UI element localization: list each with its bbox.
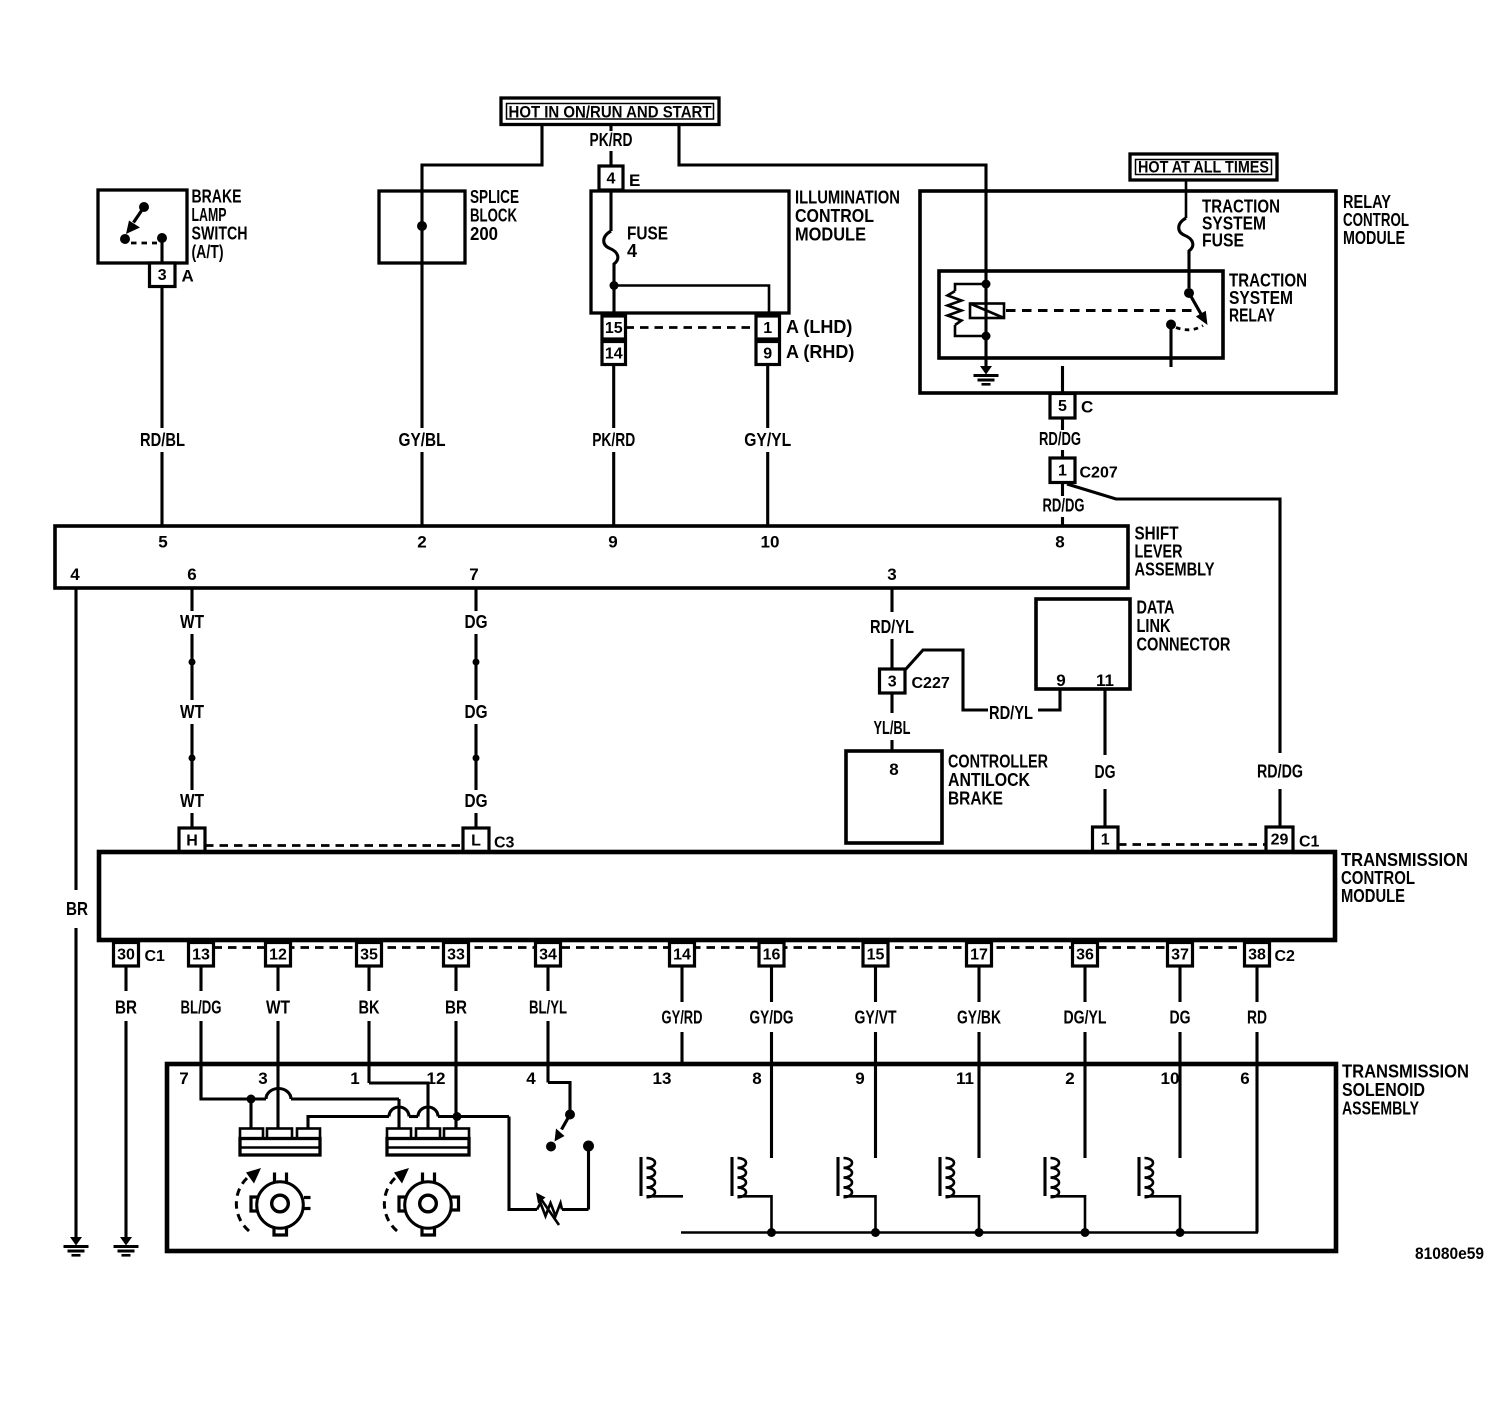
svg-text:RD/DG: RD/DG <box>1043 496 1085 516</box>
relay coil (spring) <box>955 284 986 291</box>
svg-text:34: 34 <box>539 947 557 964</box>
wire BR from TCM pin 30 to ground <box>124 966 127 991</box>
wire YL/BL from C227 <box>890 693 893 713</box>
brake lamp switch lower contact <box>120 234 130 244</box>
svg-text:ASSEMBLY: ASSEMBLY <box>1342 1099 1419 1119</box>
TCM pin 14 connector <box>670 943 695 967</box>
svg-text:TRANSMISSION: TRANSMISSION <box>1342 1062 1469 1082</box>
wire: HOT feed to splice block 200 <box>422 124 542 192</box>
dashed connector strip C1/C2 <box>214 946 1245 949</box>
svg-text:3: 3 <box>158 267 167 284</box>
wire from pin 4 to fuse 4 <box>609 190 612 231</box>
svg-text:(A/T): (A/T) <box>192 242 224 262</box>
TCM pin 12 connector <box>266 943 291 967</box>
svg-text:16: 16 <box>763 947 781 964</box>
wire BK from TCM pin 35 <box>367 966 370 991</box>
svg-text:4: 4 <box>70 565 80 584</box>
svg-text:1: 1 <box>1101 832 1110 849</box>
wire from HOT AT ALL TIMES to traction system fuse <box>1185 180 1188 218</box>
wire GY/RD from TCM pin 14 <box>680 966 683 1002</box>
controller antilock brake box <box>846 751 942 843</box>
svg-text:BL/DG: BL/DG <box>181 998 222 1018</box>
rail junction (pin 8 coil) <box>767 1228 776 1237</box>
thermistor arrow <box>541 1199 559 1225</box>
wire RD/DG branch from C207 to TCM pin 29 <box>1067 484 1280 753</box>
svg-text:15: 15 <box>867 947 885 964</box>
pin 14 connector <box>602 342 626 365</box>
svg-text:C1: C1 <box>1299 834 1320 851</box>
shift solenoid coil (pin 9) <box>836 1157 839 1196</box>
brake lamp switch travel (dashed) <box>131 242 157 245</box>
svg-text:GY/YL: GY/YL <box>744 430 791 450</box>
wire DG/YL from TCM pin 36 <box>1083 966 1086 1002</box>
svg-text:WT: WT <box>266 998 290 1018</box>
wire GY/VT from TCM pin 15 <box>874 966 877 1002</box>
inline connector C227 pin 3 <box>880 669 906 693</box>
wire PK/RD from HOT box <box>609 125 612 132</box>
wire WT from TCM pin 12 <box>276 966 279 991</box>
wire PK/RD from pin 14 <box>612 365 615 429</box>
svg-text:WT: WT <box>180 702 204 722</box>
svg-text:ASSEMBLY: ASSEMBLY <box>1135 560 1215 580</box>
traction system fuse <box>1179 218 1193 254</box>
TCM pin 33 connector <box>444 943 469 967</box>
wire DG from shift pin 7 <box>474 588 477 611</box>
wire DG from TCM pin 37 <box>1178 966 1181 1002</box>
pin 1 connector A (LHD) <box>756 316 780 339</box>
svg-text:C1: C1 <box>145 948 166 965</box>
TCM pin 38 connector <box>1245 943 1270 967</box>
svg-text:C: C <box>1081 398 1093 417</box>
temperature switch arm with arrow <box>562 1115 571 1130</box>
svg-text:DG: DG <box>465 612 488 632</box>
svg-text:HOT IN ON/RUN AND START: HOT IN ON/RUN AND START <box>509 103 713 122</box>
svg-text:LAMP: LAMP <box>192 205 227 225</box>
svg-text:7: 7 <box>469 565 478 584</box>
relay coil branch node <box>982 280 991 289</box>
svg-text:8: 8 <box>889 760 898 779</box>
wire: fuse output to pin 15 <box>612 286 615 317</box>
wire BR from shift pin 4 to ground <box>74 588 77 890</box>
shift solenoid coil (pin 10) <box>1137 1157 1140 1196</box>
relay switch travel (dotted arc) <box>1176 326 1203 330</box>
svg-text:38: 38 <box>1248 947 1266 964</box>
svg-text:9: 9 <box>1056 671 1065 690</box>
power feed box HOT IN ON/RUN AND START <box>501 98 719 125</box>
splice on WT wire <box>189 659 196 666</box>
svg-text:29: 29 <box>1271 832 1289 849</box>
speed sensor 2 (toothed wheel) <box>405 1182 452 1229</box>
svg-text:ILLUMINATION: ILLUMINATION <box>795 188 900 208</box>
TCM pin 37 connector <box>1168 943 1193 967</box>
wire RD/YL branch from C227 to data link connector pin 9 <box>905 650 988 710</box>
svg-text:GY/BL: GY/BL <box>399 430 446 450</box>
ground (TCM pin 30 BR) <box>120 1237 132 1246</box>
wire through relay coil <box>984 284 987 336</box>
svg-text:RD: RD <box>1247 1008 1267 1028</box>
svg-text:CONTROL: CONTROL <box>795 206 874 226</box>
svg-text:13: 13 <box>653 1069 672 1088</box>
svg-text:A: A <box>182 267 194 286</box>
rail junction (pin 2 coil) <box>1081 1228 1090 1237</box>
rail junction (pin 9 coil) <box>871 1228 880 1237</box>
left speed sensor connector body <box>240 1139 320 1156</box>
dashed connector link pin 1 to pin 29 <box>1118 843 1266 846</box>
wire to transmission temperature thermistor <box>509 1117 537 1210</box>
shift solenoid coil (pin 2) <box>1043 1157 1046 1196</box>
wire: HOT feed to relay coil <box>679 125 986 285</box>
svg-text:200: 200 <box>470 224 498 244</box>
crossover hump 1 <box>389 1107 409 1117</box>
fuse 4 <box>604 231 618 286</box>
brake lamp switch box <box>98 190 187 263</box>
svg-text:30: 30 <box>117 947 135 964</box>
svg-text:3: 3 <box>258 1069 267 1088</box>
svg-text:11: 11 <box>956 1069 974 1088</box>
svg-text:8: 8 <box>752 1069 761 1088</box>
svg-text:WT: WT <box>180 612 204 632</box>
svg-text:MODULE: MODULE <box>795 225 866 245</box>
svg-text:CONTROL: CONTROL <box>1341 868 1415 888</box>
ground (shift lever BR) <box>70 1237 82 1246</box>
TCM pin 17 connector <box>967 943 992 967</box>
svg-text:5: 5 <box>158 533 167 552</box>
TCM pin 13 connector <box>189 943 214 967</box>
wire BL/YL elbow to temperature switch <box>548 1083 570 1111</box>
svg-text:SWITCH: SWITCH <box>192 224 248 244</box>
wire GY/YL from pin 9 <box>766 365 769 429</box>
shift lever assembly box <box>55 526 1128 588</box>
wire RD/DG below C207 <box>1061 483 1064 497</box>
svg-text:CONTROL: CONTROL <box>1343 210 1409 230</box>
wire BR from TCM pin 33 <box>454 966 457 991</box>
svg-text:DG: DG <box>465 791 488 811</box>
relay armature (box with diagonal) <box>970 304 1004 319</box>
svg-text:2: 2 <box>1065 1069 1074 1088</box>
temperature switch common contact <box>565 1110 575 1120</box>
svg-text:GY/BK: GY/BK <box>957 1008 1001 1028</box>
wire to relay ground <box>984 336 987 367</box>
svg-text:8: 8 <box>1055 533 1064 552</box>
relay switch arm with arrow <box>1189 293 1201 314</box>
svg-text:BR: BR <box>115 998 137 1018</box>
svg-text:4: 4 <box>627 241 637 261</box>
svg-text:37: 37 <box>1171 947 1189 964</box>
svg-text:FUSE: FUSE <box>1202 231 1244 251</box>
svg-text:RD/DG: RD/DG <box>1039 429 1081 449</box>
wire RD/BL <box>160 287 163 429</box>
svg-text:GY/VT: GY/VT <box>855 1008 897 1028</box>
wire: switch contact to pin 3 <box>160 242 163 263</box>
crossover hump 2 <box>418 1107 438 1117</box>
wire GY/BK from TCM pin 17 <box>977 966 980 1002</box>
temperature switch right contact <box>583 1141 594 1152</box>
wire from relay switch output <box>1169 329 1172 367</box>
svg-text:BLOCK: BLOCK <box>470 206 517 226</box>
svg-text:17: 17 <box>970 947 988 964</box>
junction with BR wire <box>453 1112 462 1121</box>
svg-text:C2: C2 <box>1275 948 1296 965</box>
wire RD from TCM pin 38 <box>1255 966 1258 1002</box>
wire RD/DG from pin 5 <box>1061 418 1064 430</box>
pin 1 connector of TCM <box>1093 827 1119 852</box>
svg-text:A (LHD): A (LHD) <box>786 317 852 337</box>
pin 4 connector E of illumination control module <box>599 166 623 190</box>
power feed box HOT AT ALL TIMES <box>1130 154 1277 180</box>
illumination control module box <box>591 191 789 313</box>
dashed connector link pin 15 to pin 1 <box>626 326 757 329</box>
wire BK elbow to right sensor connector middle terminal <box>369 1083 428 1129</box>
svg-text:HOT AT ALL TIMES: HOT AT ALL TIMES <box>1138 158 1269 177</box>
transmission control module box <box>99 852 1335 940</box>
svg-text:BR: BR <box>66 899 88 919</box>
svg-text:YL/BL: YL/BL <box>874 718 911 738</box>
svg-text:6: 6 <box>1240 1069 1249 1088</box>
svg-text:11: 11 <box>1096 671 1114 690</box>
svg-text:6: 6 <box>187 565 196 584</box>
svg-text:1: 1 <box>1058 463 1067 480</box>
svg-text:CONTROLLER: CONTROLLER <box>948 752 1048 772</box>
svg-text:RD/BL: RD/BL <box>140 430 185 450</box>
TCM pin 30 connector <box>114 943 139 967</box>
wire WT from shift pin 6 <box>190 588 193 611</box>
svg-text:BL/YL: BL/YL <box>529 998 567 1018</box>
svg-text:PK/RD: PK/RD <box>592 430 635 450</box>
svg-text:GY/DG: GY/DG <box>750 1008 794 1028</box>
pin 5 connector C of relay control module <box>1050 394 1075 419</box>
svg-text:RD/YL: RD/YL <box>870 617 914 637</box>
svg-text:C3: C3 <box>494 835 515 852</box>
svg-text:SHIFT: SHIFT <box>1135 524 1179 544</box>
svg-text:DG: DG <box>465 702 488 722</box>
TCM pin 16 connector <box>759 943 784 967</box>
svg-text:RD/DG: RD/DG <box>1257 762 1303 782</box>
second splice on WT wire <box>189 755 196 762</box>
svg-text:RD/YL: RD/YL <box>989 703 1033 723</box>
svg-text:12: 12 <box>269 947 287 964</box>
svg-text:3: 3 <box>887 565 896 584</box>
svg-text:SOLENOID: SOLENOID <box>1342 1080 1425 1100</box>
TCM pin 15 connector <box>863 943 888 967</box>
common return rail to pin 6 <box>681 1231 1258 1234</box>
svg-text:10: 10 <box>1161 1069 1180 1088</box>
svg-text:MODULE: MODULE <box>1341 886 1405 906</box>
svg-text:H: H <box>186 832 198 849</box>
wire RD/YL from shift pin 3 <box>890 588 893 612</box>
svg-text:LEVER: LEVER <box>1135 542 1183 562</box>
relay coil lower node <box>982 332 991 341</box>
relay switch common contact <box>1184 288 1194 298</box>
svg-text:DG/YL: DG/YL <box>1064 1008 1107 1028</box>
transmission solenoid assembly box <box>167 1064 1336 1251</box>
svg-text:GY/RD: GY/RD <box>662 1008 703 1028</box>
svg-text:5: 5 <box>1058 398 1067 415</box>
wire GY/DG from TCM pin 16 <box>770 966 773 1002</box>
relay switch output contact <box>1166 320 1176 330</box>
thermistor (temperature sensor) <box>537 1203 562 1216</box>
splice on DG wire <box>473 659 480 666</box>
svg-text:SPLICE: SPLICE <box>470 187 519 207</box>
svg-text:10: 10 <box>761 533 780 552</box>
svg-text:81080e59: 81080e59 <box>1415 1244 1484 1263</box>
svg-text:15: 15 <box>605 320 623 337</box>
svg-text:3: 3 <box>888 673 897 690</box>
svg-text:9: 9 <box>855 1069 864 1088</box>
splice block 200 box <box>379 191 465 263</box>
svg-text:DATA: DATA <box>1137 598 1175 618</box>
junction in illumination module <box>610 281 619 290</box>
pin 15 connector <box>602 316 626 339</box>
rail junction (pin 11 coil) <box>975 1228 984 1237</box>
svg-text:WT: WT <box>180 791 204 811</box>
svg-text:9: 9 <box>608 533 617 552</box>
svg-text:4: 4 <box>607 170 616 187</box>
inline connector C207 pin 1 <box>1050 458 1075 483</box>
wire BL/DG from TCM pin 13 <box>199 966 202 991</box>
shift solenoid coil (pin 11) <box>938 1157 941 1196</box>
svg-text:LINK: LINK <box>1137 616 1171 636</box>
traction system relay box <box>939 271 1223 358</box>
svg-text:RELAY: RELAY <box>1229 306 1275 326</box>
wire: pin 7 feed to sensor connectors <box>201 1064 266 1099</box>
data link connector box <box>1036 599 1130 689</box>
pin 3 connector A of brake lamp switch <box>150 263 176 287</box>
svg-text:1: 1 <box>350 1069 359 1088</box>
wire: fuse output to pin 1 <box>614 286 769 314</box>
svg-text:9: 9 <box>763 345 772 362</box>
pin H connector C3 of TCM <box>179 828 205 852</box>
svg-text:35: 35 <box>360 947 378 964</box>
right speed sensor connector body <box>387 1139 469 1156</box>
second splice on DG wire <box>473 755 480 762</box>
wire from thermistor to switch contact <box>587 1151 590 1210</box>
svg-text:7: 7 <box>179 1069 188 1088</box>
svg-text:L: L <box>471 832 481 849</box>
rail junction (pin 10 coil) <box>1176 1228 1185 1237</box>
shift solenoid coil (pin 8) <box>730 1157 733 1196</box>
brake lamp switch contact (moving arm with arrow) <box>139 202 149 212</box>
svg-text:PK/RD: PK/RD <box>590 130 633 150</box>
shift solenoid coil (pin 13) <box>639 1157 642 1196</box>
svg-text:C227: C227 <box>912 675 950 692</box>
wire stub to pin 5 <box>1061 366 1064 393</box>
pin 9 connector A (RHD) <box>756 342 780 365</box>
junction on pin 7 feed <box>247 1095 256 1104</box>
brake lamp switch stationary contact <box>157 233 167 243</box>
svg-text:13: 13 <box>192 947 210 964</box>
svg-text:14: 14 <box>673 947 691 964</box>
speed sensor 1 (toothed wheel) <box>257 1182 304 1229</box>
TCM pin 36 connector <box>1073 943 1098 967</box>
svg-text:4: 4 <box>526 1069 536 1088</box>
dashed connector link H to L <box>205 844 463 847</box>
svg-text:E: E <box>629 171 640 190</box>
left speed sensor connector terminals <box>240 1129 263 1139</box>
relay control module box <box>920 191 1336 393</box>
svg-text:RELAY: RELAY <box>1343 192 1391 212</box>
TCM pin 35 connector <box>357 943 382 967</box>
svg-text:MODULE: MODULE <box>1343 228 1405 248</box>
wire GY/BL <box>420 263 423 428</box>
svg-text:BR: BR <box>445 998 467 1018</box>
wire: left connector right terminal run <box>308 1117 389 1130</box>
dashed mechanical link <box>1006 309 1192 312</box>
splice junction <box>417 221 427 231</box>
svg-text:DG: DG <box>1095 762 1116 782</box>
svg-text:1: 1 <box>763 320 772 337</box>
svg-text:BRAKE: BRAKE <box>948 789 1003 809</box>
ground (relay control module) <box>980 366 992 375</box>
wire through splice block <box>420 191 423 263</box>
svg-text:14: 14 <box>605 345 623 362</box>
pin 29 connector C1 of TCM <box>1266 827 1293 852</box>
crossover hump over WT wire <box>266 1089 291 1100</box>
svg-text:BRAKE: BRAKE <box>192 187 242 207</box>
svg-text:BK: BK <box>359 998 380 1018</box>
svg-text:33: 33 <box>447 947 465 964</box>
svg-text:DG: DG <box>1170 1008 1191 1028</box>
svg-text:C207: C207 <box>1080 465 1118 482</box>
TCM pin 34 connector <box>536 943 561 967</box>
wire drop to left sensor connector left terminal <box>249 1099 252 1129</box>
svg-text:CONNECTOR: CONNECTOR <box>1137 635 1231 655</box>
pin L connector C3 of TCM <box>463 828 489 852</box>
temperature switch left contact <box>546 1142 556 1152</box>
svg-text:2: 2 <box>417 533 426 552</box>
svg-text:ANTILOCK: ANTILOCK <box>948 770 1030 790</box>
svg-text:12: 12 <box>427 1069 446 1088</box>
svg-text:36: 36 <box>1076 947 1094 964</box>
svg-text:A (RHD): A (RHD) <box>786 342 854 362</box>
wire drop to right sensor connector left terminal <box>397 1099 400 1129</box>
svg-text:TRANSMISSION: TRANSMISSION <box>1341 850 1468 870</box>
right speed sensor connector terminals <box>387 1129 411 1139</box>
wire DG from data link pin 11 <box>1103 689 1106 755</box>
wire BL/YL from TCM pin 34 <box>546 966 549 991</box>
